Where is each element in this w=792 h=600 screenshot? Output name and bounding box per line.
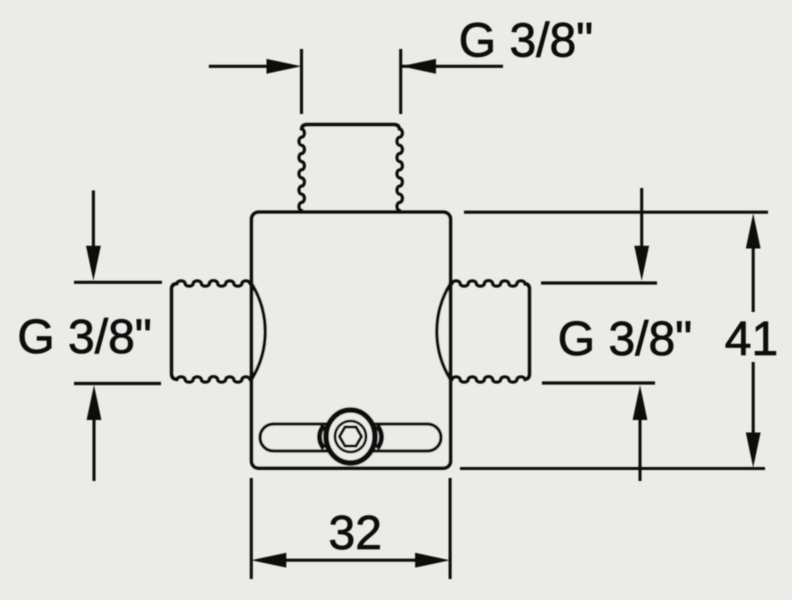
svg-text:G 3/8": G 3/8": [17, 311, 151, 364]
svg-text:G 3/8": G 3/8": [558, 313, 692, 366]
svg-text:32: 32: [329, 507, 382, 560]
svg-text:41: 41: [725, 313, 778, 366]
svg-text:G 3/8": G 3/8": [459, 14, 593, 67]
